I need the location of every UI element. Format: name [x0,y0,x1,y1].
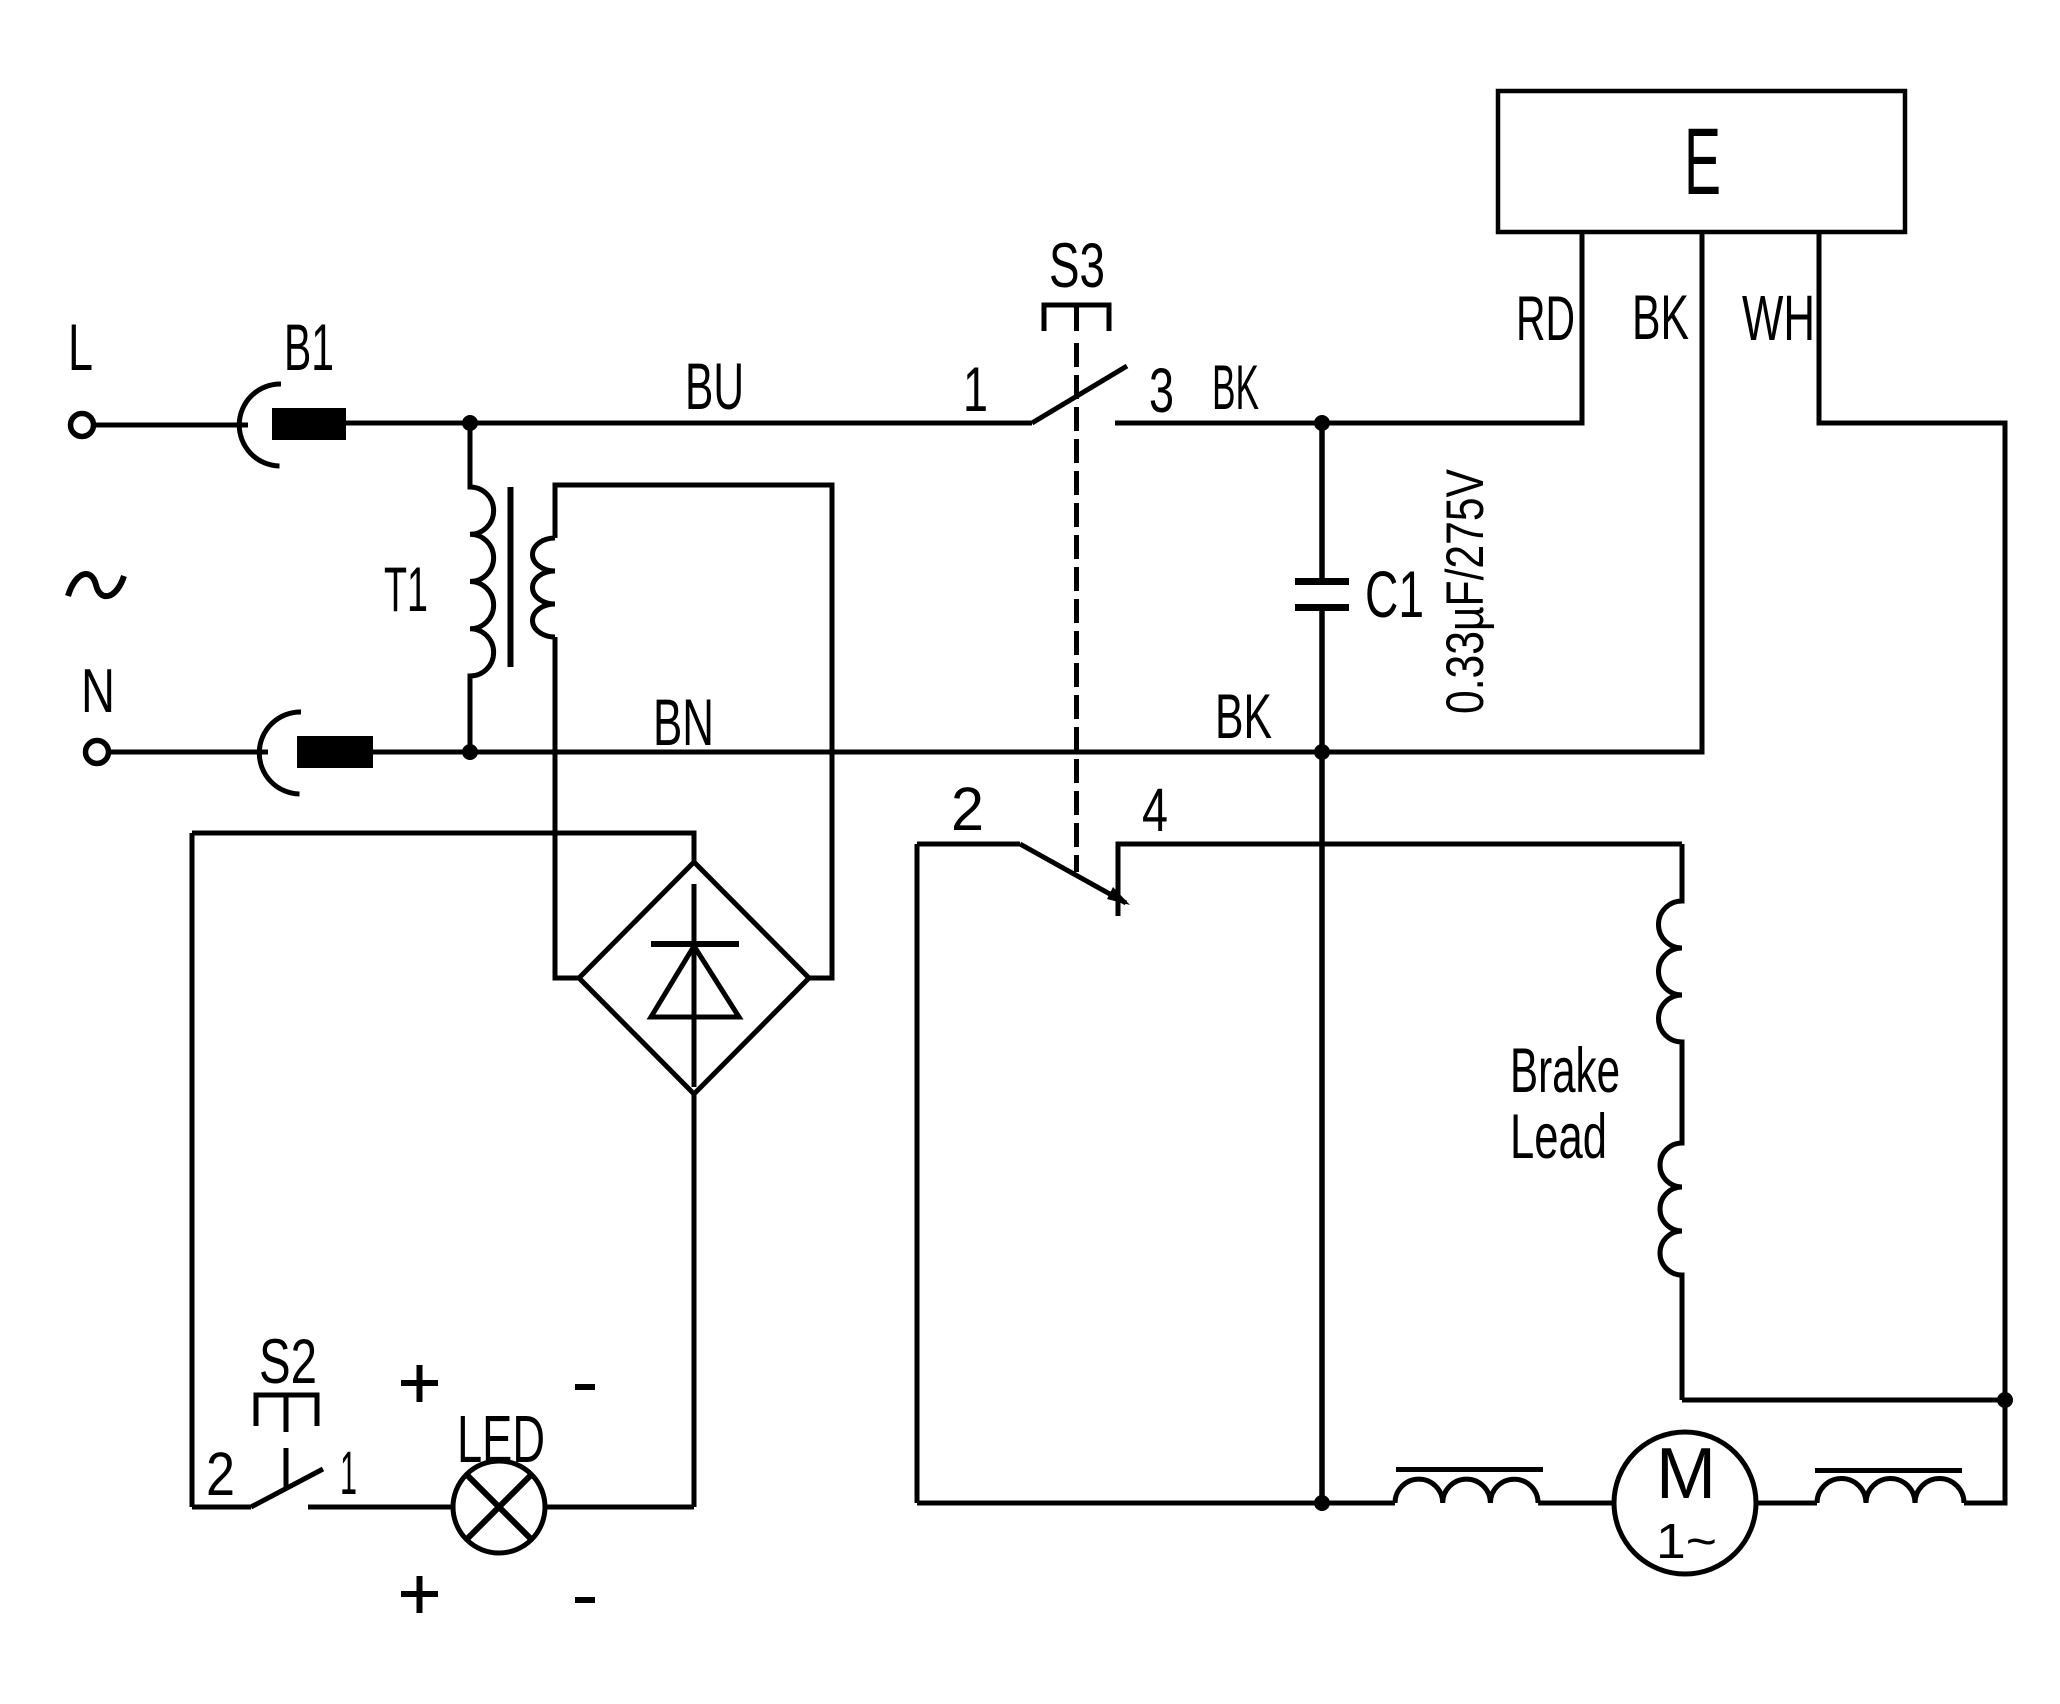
inductor core bar (left) [1396,1467,1543,1472]
svg-text:2: 2 [951,775,984,843]
wire bridge top corner to DC loop [192,833,694,862]
terminal N [86,741,109,764]
inductor (motor left winding) [1395,1479,1538,1503]
wire right inductor to WH corner [1964,1400,2005,1503]
wire DC loop left vertical [190,833,195,1507]
wire S3 pin 3 to C1 node [1115,421,1582,426]
transformer T1 primary winding [470,423,494,752]
terminal L [71,414,94,437]
switch S3 blade pole 1 [1032,366,1127,423]
connector B1 socket arc (N side) [259,712,301,794]
node: junction motor row [1314,1495,1330,1511]
inductor (motor right winding) [1817,1479,1964,1504]
wire RD: E to BK node row [1580,232,1585,426]
inductor core bar (right) [1815,1468,1962,1473]
bridge diode lead [692,884,697,1087]
svg-text:1~: 1~ [1656,1515,1717,1569]
LED lamp cross [467,1475,532,1540]
wire motor to right inductor [1756,1501,1817,1506]
svg-text:WH: WH [1742,282,1815,354]
svg-text:BK: BK [1215,682,1272,752]
svg-text:4: 4 [1142,776,1168,844]
wire BN: B1 to BK vertical [371,750,1702,755]
wire LED to bridge bottom [545,1505,694,1510]
switch S3 blade pole 2 [1020,844,1126,903]
wire WH: E to motor right side [1819,232,2005,1400]
wire BK: E to BN row [1700,232,1705,755]
svg-text:BK: BK [1632,283,1689,353]
plus sign (upper) [401,1365,438,1402]
svg-text:Brake: Brake [1510,1036,1620,1106]
bridge rectifier B outline [579,862,809,1094]
svg-text:0.33µF/275V: 0.33µF/275V [1436,468,1495,714]
wire C1 node down to motor row [1319,752,1325,1503]
wire S2 pin1 to LED [308,1505,453,1510]
svg-text:LED: LED [457,1402,545,1477]
svg-text:S3: S3 [1049,231,1105,301]
wire S3 pin 4 stub [1118,844,1682,916]
svg-text:1: 1 [963,355,988,425]
brake coil winding [1658,844,1682,1400]
minus sign (upper) [575,1384,595,1390]
transformer T1 core [508,487,514,667]
LED lamp circle [453,1461,545,1553]
node: junction BN/C1 bottom [1314,744,1330,760]
svg-text:E: E [1684,109,1721,215]
svg-text:BK: BK [1212,353,1259,423]
wire bridge bottom vertical [692,1094,697,1507]
node: junction N/T1 primary [462,744,478,760]
svg-text:3: 3 [1149,356,1174,426]
svg-text:L: L [68,310,93,384]
wire N to B1 [109,750,268,755]
motor M circle [1614,1432,1756,1574]
svg-text:T1: T1 [384,555,428,625]
svg-text:RD: RD [1516,284,1575,354]
block E outline [1498,91,1905,232]
wire BU: B1 to S3 pin 1 [346,421,1032,426]
switch S2 blade [251,1469,323,1507]
switch S3 blade arrow tip [1107,887,1130,905]
switch S3 link (dashed) [1074,343,1079,872]
minus sign (lower) [575,1597,595,1603]
wire secondary top to bridge right corner [555,485,832,978]
wire S3 pin 2 [917,842,1020,847]
svg-text:M: M [1656,1434,1716,1514]
svg-text:S2: S2 [259,1327,317,1397]
wire secondary bottom to bridge left corner [555,637,579,978]
connector B1 socket arc (L side) [239,384,281,466]
node: junction BK/C1 top [1314,415,1330,431]
wire motor row left [1322,1501,1395,1506]
switch S2 push-button actuator [256,1395,317,1432]
switch S2 link (dashed) [284,1448,289,1489]
svg-text:2: 2 [206,1440,235,1508]
connector B1 plug bar (N side) [297,736,373,768]
wire lower box left vertical [915,844,920,1503]
bridge diode cathode bar [651,941,739,947]
svg-text:N: N [81,657,115,726]
wire L to B1 [94,423,248,428]
wire lower box bottom [917,1501,1322,1506]
wire brake coil bottom [1682,1398,2005,1403]
plus sign (lower) [401,1576,438,1613]
capacitor C1 plates [1295,582,1349,608]
svg-text:BN: BN [653,685,714,759]
connector B1 plug bar (L side) [272,408,346,440]
bridge diode triangle [651,946,739,1017]
svg-text:BU: BU [685,349,744,423]
capacitor C1 top lead [1319,423,1325,578]
node: junction WH/brake [1997,1392,2013,1408]
switch S3 push-button actuator [1044,305,1109,331]
wire inductor to motor [1538,1501,1614,1506]
AC source symbol ~ [68,574,124,596]
transformer T1 secondary winding [533,538,556,637]
wire to S2 pin 2 [192,1505,251,1510]
capacitor C1 bottom lead [1319,611,1325,752]
svg-text:Lead: Lead [1510,1102,1607,1172]
svg-text:B1: B1 [284,310,334,384]
svg-text:C1: C1 [1365,557,1424,631]
svg-text:1: 1 [340,1439,357,1507]
node: junction L/T1 primary [462,415,478,431]
